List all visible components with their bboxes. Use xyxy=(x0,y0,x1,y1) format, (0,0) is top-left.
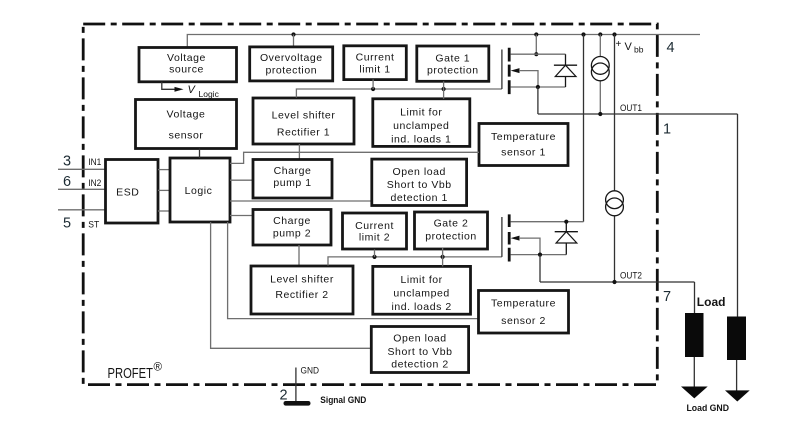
block: Logic xyxy=(170,158,230,222)
svg-text:ind. loads 2: ind. loads 2 xyxy=(391,301,451,313)
svg-text:Current: Current xyxy=(355,220,394,232)
svg-text:Charge: Charge xyxy=(274,165,312,177)
block: Overvoltage protection xyxy=(250,47,333,81)
block: Level shifter Rectifier 2 xyxy=(251,266,353,314)
svg-text:Level shifter: Level shifter xyxy=(270,273,334,285)
transistor T1 (power DMOS channel 1) xyxy=(509,48,565,94)
wire: ESD to Logic IN1 xyxy=(158,169,170,171)
svg-text:Voltage: Voltage xyxy=(167,52,206,64)
svg-text:Short to Vbb: Short to Vbb xyxy=(388,346,453,358)
wire: Logic to Charge pump 2 xyxy=(230,215,253,217)
pin 5 ST lead xyxy=(58,210,106,232)
svg-text:ind. loads 1: ind. loads 1 xyxy=(391,133,451,145)
svg-text:Gate 1: Gate 1 xyxy=(435,53,470,65)
block: Temperature sensor 2 xyxy=(479,291,569,334)
svg-text:Limit for: Limit for xyxy=(400,274,442,286)
svg-text:PROFET: PROFET xyxy=(108,366,154,382)
block: Voltage source xyxy=(139,48,237,82)
svg-text:V: V xyxy=(625,41,633,53)
svg-text:protection: protection xyxy=(265,65,317,77)
block: Gate 1 protection xyxy=(417,46,489,81)
svg-text:IN1: IN1 xyxy=(88,157,101,168)
node: MOSFET1 drain tap on Vbb rail xyxy=(534,32,538,56)
wire: +Vbb top supply rail xyxy=(187,35,700,47)
current source I1 (sense, channel 1) xyxy=(591,57,609,81)
wire: Logic to Open load detection 1 xyxy=(230,200,372,202)
pin 3 IN1 lead xyxy=(58,153,106,169)
load resistor 1 xyxy=(681,313,708,398)
svg-text:Voltage: Voltage xyxy=(167,109,206,121)
block: Open load Short to Vbb detection 2 xyxy=(371,327,468,373)
label +Vbb xyxy=(616,39,644,55)
svg-text:®: ® xyxy=(154,362,163,374)
svg-text:Charge: Charge xyxy=(273,215,311,227)
svg-text:source: source xyxy=(169,63,204,75)
block: Level shifter Rectifier 1 xyxy=(253,98,354,144)
block: Temperature sensor 1 xyxy=(479,124,568,166)
svg-text:4: 4 xyxy=(666,40,674,56)
block: Voltage sensor xyxy=(136,100,237,149)
wire: OUT1 line xyxy=(538,87,738,317)
node: overvoltage tap on Vbb rail xyxy=(291,32,295,46)
svg-text:Load GND: Load GND xyxy=(687,403,730,414)
diode D2 (output clamp channel 2) xyxy=(555,222,578,255)
block: Open load Short to Vbb detection 1 xyxy=(372,159,467,205)
svg-text:Open load: Open load xyxy=(392,166,445,178)
svg-text:3: 3 xyxy=(63,153,71,169)
ground symbol: Signal GND bar xyxy=(284,395,367,406)
wire: Vbb rail to current source 2 xyxy=(612,32,616,282)
svg-text:limit 1: limit 1 xyxy=(359,64,390,76)
svg-text:detection 1: detection 1 xyxy=(390,192,447,204)
svg-text:unclamped: unclamped xyxy=(393,120,449,132)
svg-text:protection: protection xyxy=(427,65,479,77)
block: Limit for unclamped ind. loads 1 xyxy=(373,99,470,147)
svg-text:OUT2: OUT2 xyxy=(620,271,642,282)
svg-text:sensor: sensor xyxy=(169,129,204,141)
svg-text:Load: Load xyxy=(697,295,726,309)
svg-text:Logic: Logic xyxy=(199,89,220,99)
svg-text:Limit for: Limit for xyxy=(400,106,442,118)
block: Charge pump 1 xyxy=(253,160,332,199)
svg-text:Rectifier 2: Rectifier 2 xyxy=(275,289,328,301)
wire: Vbb rail down to MOSFET2 drain xyxy=(581,32,585,221)
diode D1 (output clamp channel 1) xyxy=(554,54,577,87)
wire: OUT2 line xyxy=(540,255,695,313)
svg-text:Overvoltage: Overvoltage xyxy=(260,52,323,64)
svg-text:OUT1: OUT1 xyxy=(620,103,642,114)
block: ESD xyxy=(106,160,159,224)
wire: Logic to Temperature sensor 2 xyxy=(228,222,479,319)
pin 2 GND lead xyxy=(279,366,319,404)
block: Current limit 2 xyxy=(343,213,407,249)
svg-text:Current: Current xyxy=(356,52,395,64)
svg-text:5: 5 xyxy=(63,215,71,231)
svg-text:Gate 2: Gate 2 xyxy=(434,218,469,230)
transistor T2 gate line xyxy=(501,217,503,257)
wire: Voltage sensor to Logic xyxy=(199,149,201,159)
label PROFET (R) xyxy=(108,362,163,382)
wire: Logic to Charge pump 1 xyxy=(230,179,253,181)
svg-text:Logic: Logic xyxy=(185,185,213,197)
svg-text:limit 2: limit 2 xyxy=(359,232,390,244)
svg-text:pump 2: pump 2 xyxy=(273,227,311,239)
svg-text:IN2: IN2 xyxy=(88,178,101,189)
svg-text:GND: GND xyxy=(301,366,320,377)
svg-text:ST: ST xyxy=(88,220,99,231)
transistor T1 gate line xyxy=(501,50,503,90)
block: Current limit 1 xyxy=(344,46,407,80)
svg-text:+: + xyxy=(616,39,622,50)
wire: gate bus 2 (level shifter / current limit / gate protection to gate 2) xyxy=(328,248,502,266)
svg-text:Open load: Open load xyxy=(393,332,446,344)
current source I2 (sense, channel 2) xyxy=(606,191,624,216)
block: Limit for unclamped ind. loads 2 xyxy=(373,266,471,314)
svg-text:bb: bb xyxy=(634,45,644,55)
svg-text:Rectifier 1: Rectifier 1 xyxy=(277,126,330,138)
svg-text:detection 2: detection 2 xyxy=(391,358,448,370)
IC boundary dash-dot border xyxy=(83,24,657,385)
wire: ESD to Logic ST xyxy=(158,210,170,212)
wire: Vbb rail to current source 1 xyxy=(598,32,602,114)
svg-text:sensor 2: sensor 2 xyxy=(501,315,546,327)
wire: ESD to Logic IN2 xyxy=(158,189,170,191)
svg-text:Short to Vbb: Short to Vbb xyxy=(387,179,452,191)
load resistor 2 xyxy=(725,317,750,402)
svg-text:Level shifter: Level shifter xyxy=(272,109,336,121)
wire: Level shifter 1 to Charge pump 1 xyxy=(298,144,300,160)
block: Gate 2 protection xyxy=(415,212,488,249)
svg-text:unclamped: unclamped xyxy=(393,288,449,300)
svg-text:sensor 1: sensor 1 xyxy=(501,146,546,158)
svg-text:Temperature: Temperature xyxy=(491,131,556,143)
svg-text:7: 7 xyxy=(663,289,671,305)
svg-text:ESD: ESD xyxy=(116,186,139,198)
svg-text:Temperature: Temperature xyxy=(491,298,556,310)
svg-text:1: 1 xyxy=(663,122,671,138)
transistor T2 (power DMOS channel 2) xyxy=(509,214,583,261)
wire: V Logic arrow from Voltage source xyxy=(162,82,220,99)
svg-text:pump 1: pump 1 xyxy=(273,177,311,189)
wire: Logic to Temperature sensor 1 xyxy=(230,152,479,163)
wire: Charge pump 2 to Level shifter 2 xyxy=(298,245,300,266)
pin 6 IN2 lead xyxy=(58,174,106,190)
svg-text:6: 6 xyxy=(63,174,71,190)
wire: gate bus 1 (level shifter / current limit / gate protection to gate 1) xyxy=(296,79,502,98)
wire: Logic to Open load detection 2 xyxy=(211,222,372,348)
svg-text:protection: protection xyxy=(425,230,477,242)
block: Charge pump 2 xyxy=(253,210,331,246)
svg-text:Signal GND: Signal GND xyxy=(320,395,366,406)
